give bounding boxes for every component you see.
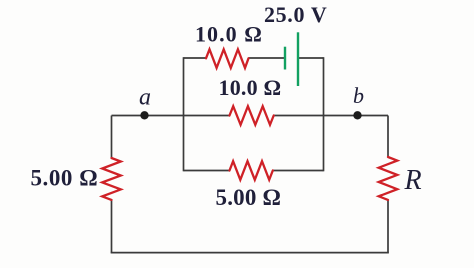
wire: top branch right of battery: [298, 57, 324, 59]
node b: [353, 111, 361, 119]
wire: top branch between resistor and battery: [249, 57, 286, 59]
wire: a-b horizontal right of middle resistor: [274, 115, 388, 117]
svg-text:b: b: [353, 83, 364, 108]
svg-text:10.0 Ω: 10.0 Ω: [219, 75, 282, 100]
wire: left outer vertical above resistor: [111, 116, 113, 159]
svg-text:25.0 V: 25.0 V: [264, 2, 327, 27]
resistor 5.00 ohm bottom branch: [230, 161, 273, 180]
resistor 10.0 ohm middle branch: [230, 106, 274, 125]
svg-text:R: R: [404, 165, 422, 196]
wire: inner box left vertical: [183, 57, 185, 171]
wire: bottom branch left segment: [184, 170, 230, 172]
wire: left outer vertical below resistor: [111, 199, 113, 253]
wire: bottom outer horizontal: [111, 252, 389, 254]
resistor R right branch: [379, 157, 398, 200]
wire: top branch left segment: [184, 57, 207, 59]
wire: right outer vertical below R: [387, 200, 389, 253]
svg-text:5.00 Ω: 5.00 Ω: [216, 185, 282, 210]
svg-text:5.00 Ω: 5.00 Ω: [31, 166, 99, 191]
wire: bottom branch right segment: [273, 170, 324, 172]
node a: [140, 111, 148, 119]
wire: inner box right vertical: [323, 57, 325, 171]
wire: right outer vertical above R: [387, 116, 389, 158]
resistor 10.0 ohm top branch: [206, 49, 249, 68]
svg-text:10.0 Ω: 10.0 Ω: [195, 22, 263, 47]
svg-text:a: a: [139, 85, 151, 111]
resistor 5.00 ohm left branch: [102, 158, 121, 200]
battery 25.0 V long plate: [297, 32, 299, 86]
wire: a-b horizontal left of middle resistor: [112, 115, 230, 117]
battery 25.0 V short plate: [284, 47, 286, 70]
